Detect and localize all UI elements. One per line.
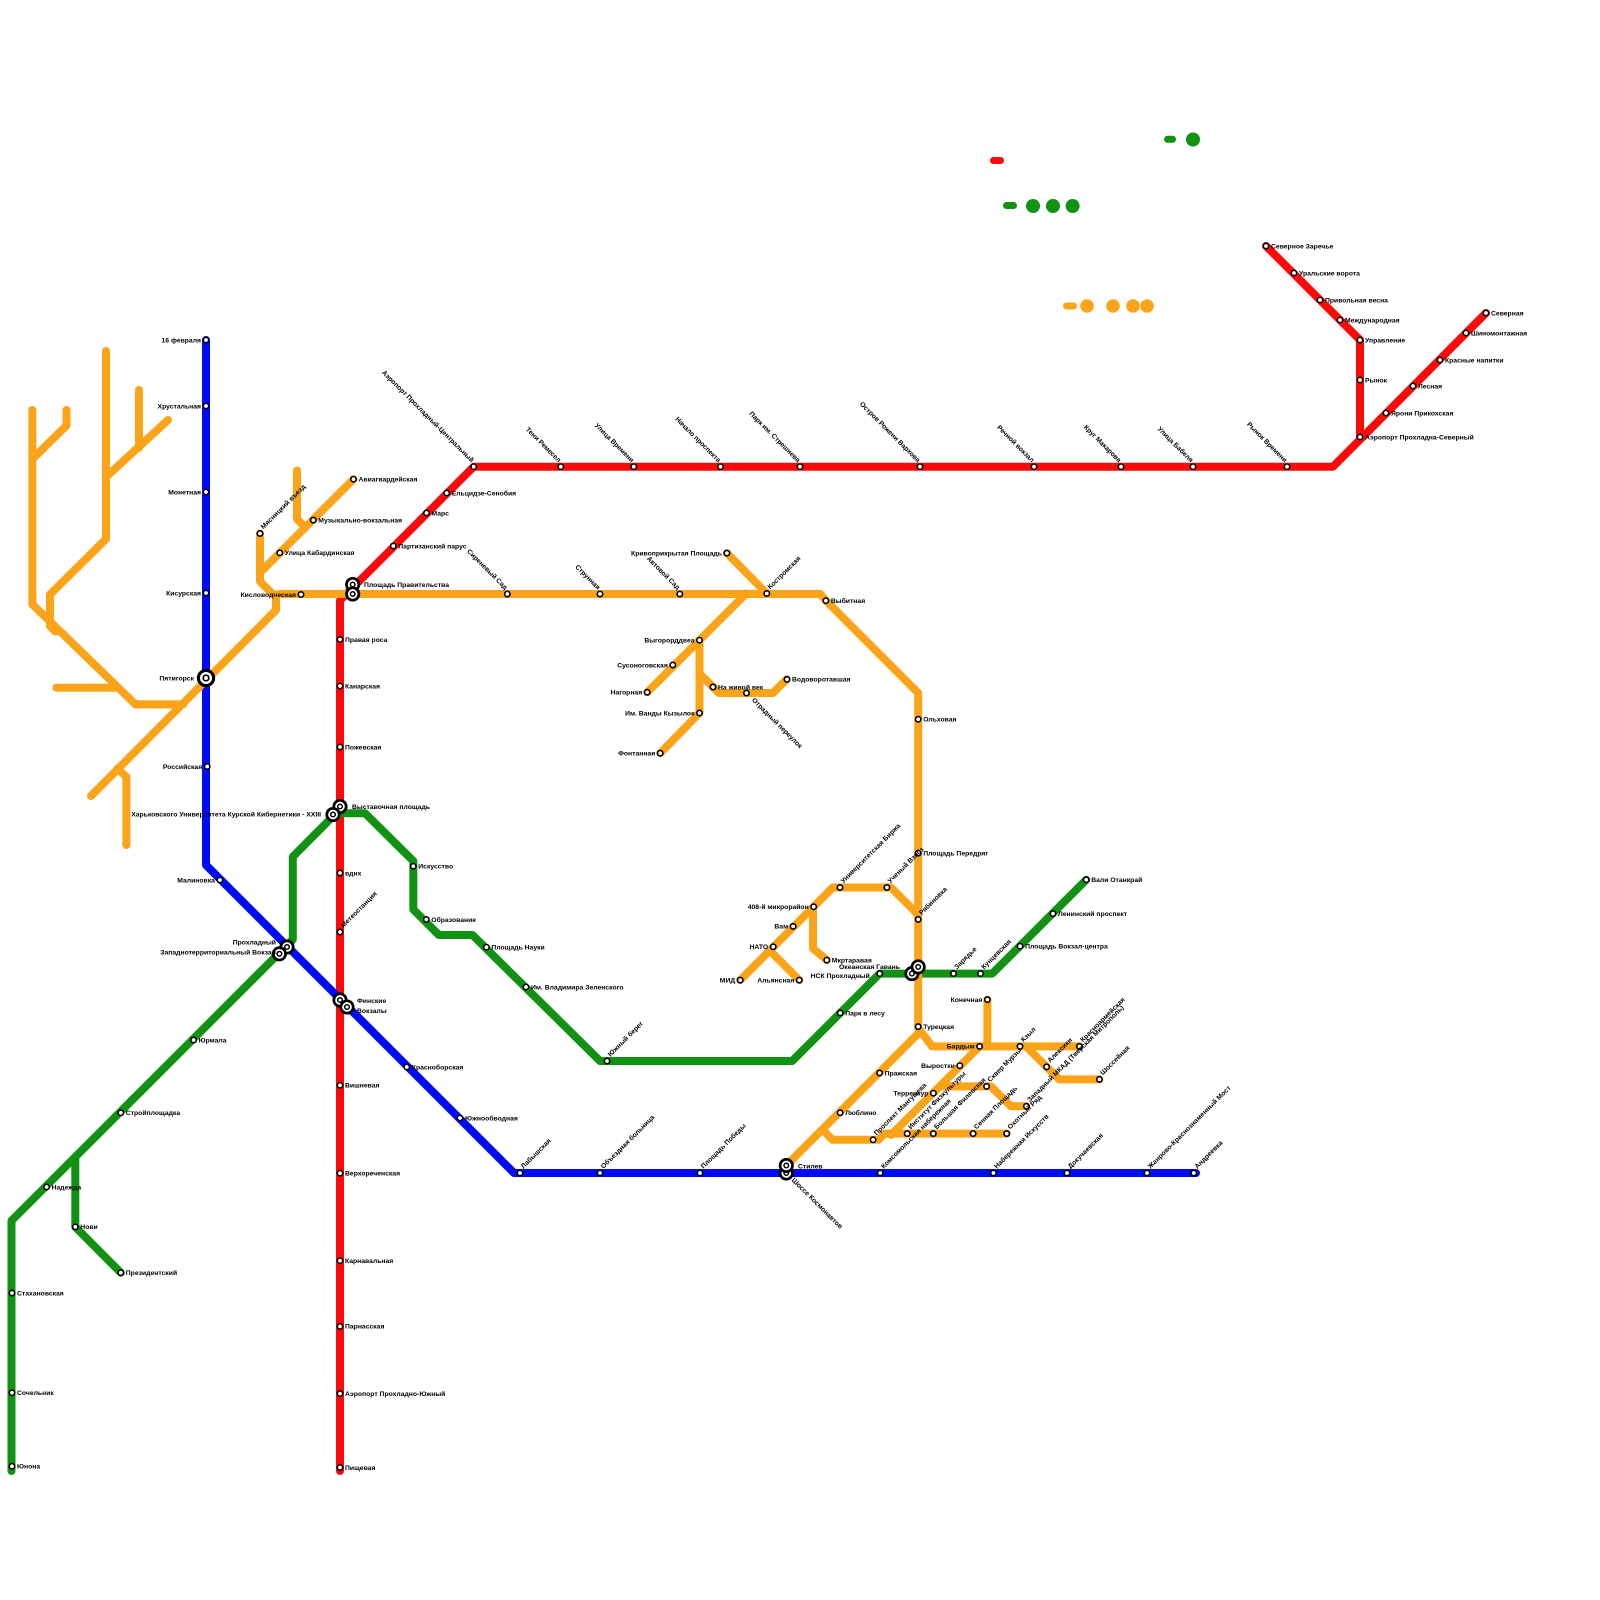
svg-text:Прохладный: Прохладный — [233, 939, 276, 947]
svg-text:Кривоприкрытая Площадь: Кривоприкрытая Площадь — [631, 550, 722, 557]
svg-text:Сусоноговская: Сусоноговская — [617, 662, 668, 669]
svg-text:Красные напитки: Красные напитки — [1445, 357, 1504, 364]
svg-text:МИД: МИД — [720, 977, 736, 984]
svg-text:Нови: Нови — [80, 1224, 97, 1231]
svg-text:Океанская Гавань: Океанская Гавань — [839, 964, 900, 971]
svg-text:Сочельник: Сочельник — [17, 1390, 54, 1397]
svg-text:Площадь Вокзал-центра: Площадь Вокзал-центра — [1025, 944, 1108, 951]
svg-text:Вам: Вам — [774, 924, 788, 931]
svg-text:Кисурская: Кисурская — [166, 590, 201, 597]
svg-text:Выгорорддвеа: Выгорорддвеа — [644, 638, 694, 645]
svg-text:Марс: Марс — [432, 510, 450, 517]
svg-text:Площадь Науки: Площадь Науки — [491, 945, 544, 952]
svg-text:Президентский: Президентский — [126, 1269, 177, 1277]
svg-text:Люблино: Люблино — [845, 1109, 876, 1117]
svg-text:Аэропорт Прохладно-Южный: Аэропорт Прохладно-Южный — [345, 1390, 445, 1398]
svg-text:Ольховая: Ольховая — [923, 717, 956, 724]
svg-text:Площадь Передряг: Площадь Передряг — [923, 850, 988, 857]
svg-text:Привольная весна: Привольная весна — [1325, 297, 1388, 304]
svg-text:Нагорная: Нагорная — [611, 690, 643, 697]
svg-text:Улица Кабардинская: Улица Кабардинская — [285, 549, 355, 557]
svg-text:Рынок: Рынок — [1365, 377, 1388, 384]
svg-text:Карнавальная: Карнавальная — [345, 1258, 393, 1265]
svg-text:Партизанский парус: Партизанский парус — [398, 542, 466, 550]
svg-text:Вали Отанкрай: Вали Отанкрай — [1091, 876, 1142, 884]
svg-text:Северное Заречье: Северное Заречье — [1271, 243, 1334, 250]
svg-text:16 февраля: 16 февраля — [162, 337, 202, 344]
svg-text:Мкртаравая: Мкртаравая — [832, 957, 872, 964]
svg-text:Надежда: Надежда — [52, 1184, 82, 1191]
svg-text:Монетная: Монетная — [168, 489, 201, 496]
svg-text:Кисловодческая: Кисловодческая — [240, 592, 296, 599]
svg-text:Альянсная: Альянсная — [757, 977, 794, 984]
svg-text:Авиагвардейская: Авиагвардейская — [359, 476, 418, 484]
svg-text:Юнона: Юнона — [17, 1464, 40, 1471]
svg-text:Турецкая: Турецкая — [923, 1024, 954, 1031]
svg-text:Российская: Российская — [163, 763, 202, 771]
svg-text:Музыкально-вокзальная: Музыкально-вокзальная — [318, 517, 402, 524]
svg-text:Стилев: Стилев — [798, 1164, 823, 1171]
svg-text:Канарская: Канарская — [345, 683, 380, 690]
svg-text:Ленинский проспект: Ленинский проспект — [1058, 910, 1128, 918]
svg-text:Стройплощадка: Стройплощадка — [126, 1109, 181, 1117]
svg-text:НСК Прохладный: НСК Прохладный — [811, 972, 870, 980]
svg-text:Им. Ванды Кызылок: Им. Ванды Кызылок — [625, 710, 695, 717]
svg-text:вднх: вднх — [345, 870, 362, 877]
svg-text:Красноборская: Красноборская — [412, 1063, 464, 1071]
svg-text:Парк в лесу: Парк в лесу — [845, 1010, 885, 1017]
svg-text:Международная: Международная — [1345, 317, 1400, 324]
svg-text:Ярони Прикохская: Ярони Прикохская — [1391, 410, 1453, 417]
svg-text:Лесная: Лесная — [1418, 383, 1442, 390]
svg-text:Хрустальная: Хрустальная — [158, 403, 201, 410]
svg-text:408-й микрорайон: 408-й микрорайон — [748, 903, 809, 911]
svg-text:Северная: Северная — [1491, 310, 1524, 317]
svg-text:НАТО: НАТО — [749, 944, 768, 951]
svg-text:Им. Владимира Зеленского: Им. Владимира Зеленского — [531, 984, 624, 991]
svg-text:Пищевая: Пищевая — [345, 1465, 375, 1472]
svg-text:Парнасская: Парнасская — [345, 1324, 384, 1331]
svg-text:Малиновка: Малиновка — [177, 877, 215, 884]
svg-text:Искусство: Искусство — [418, 864, 453, 871]
svg-text:Площадь Правительства: Площадь Правительства — [364, 582, 449, 589]
svg-text:На живой век: На живой век — [718, 683, 764, 691]
svg-text:Западнотерриториальный Вокзал: Западнотерриториальный Вокзал — [160, 949, 276, 957]
svg-text:Верхореченская: Верхореченская — [345, 1171, 400, 1178]
svg-text:Южнообводная: Южнообводная — [465, 1114, 518, 1122]
svg-text:Бардым: Бардым — [947, 1044, 975, 1051]
svg-text:Выростки: Выростки — [921, 1063, 955, 1070]
svg-text:Пожевская: Пожевская — [345, 744, 381, 751]
svg-text:Образование: Образование — [431, 916, 476, 924]
svg-text:Ельцидзе-Сенобия: Ельцидзе-Сенобия — [452, 489, 516, 497]
svg-text:Выбитная: Выбитная — [831, 597, 865, 605]
svg-text:Пражская: Пражская — [885, 1070, 918, 1077]
svg-text:Пятигорск: Пятигорск — [159, 676, 194, 683]
svg-text:Стахановская: Стахановская — [17, 1290, 64, 1297]
svg-text:Правая роса: Правая роса — [345, 637, 388, 644]
svg-text:Шиномонтажная: Шиномонтажная — [1471, 330, 1527, 337]
svg-text:Выставочная площадь: Выставочная площадь — [352, 804, 430, 811]
svg-text:Аэропорт Прохладна-Северный: Аэропорт Прохладна-Северный — [1365, 433, 1474, 441]
svg-text:Харьковского Университета Курс: Харьковского Университета Курской Киберн… — [131, 811, 321, 819]
svg-text:Уральские ворота: Уральские ворота — [1299, 270, 1360, 277]
svg-text:Юрмала: Юрмала — [199, 1037, 227, 1044]
svg-text:Фонтанная: Фонтанная — [618, 751, 655, 758]
svg-text:Управление: Управление — [1365, 337, 1405, 344]
svg-text:Вишневая: Вишневая — [345, 1083, 380, 1090]
svg-text:Конечная: Конечная — [951, 997, 983, 1004]
svg-text:Финские: Финские — [357, 998, 386, 1005]
svg-text:Вокзалы: Вокзалы — [357, 1008, 387, 1015]
svg-text:Водоворотавшая: Водоворотавшая — [792, 677, 851, 684]
svg-text:Терренкур: Терренкур — [893, 1091, 928, 1098]
